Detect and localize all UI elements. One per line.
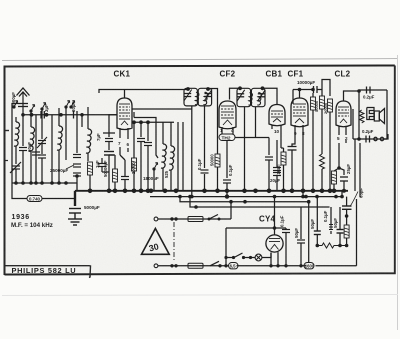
CK1 top cap wire xyxy=(99,90,188,95)
cap x227 xyxy=(223,180,231,183)
junction xyxy=(59,113,63,117)
junction z2 xyxy=(345,244,349,248)
wire xyxy=(281,148,284,191)
hook wire xyxy=(384,134,388,139)
ground xyxy=(68,213,82,225)
CY4 legs xyxy=(271,253,278,266)
junction xyxy=(298,88,302,92)
AVC line with resistor 0.740 xyxy=(12,183,75,199)
IF1 can right xyxy=(198,88,211,106)
fuse element lower xyxy=(188,265,203,267)
IF1 secondary coil xyxy=(203,92,207,104)
CK1 internal electrodes xyxy=(119,104,130,125)
wire osc coil A xyxy=(162,122,164,191)
wire osc coil B xyxy=(170,122,172,191)
resistor 0.740 oval xyxy=(27,196,42,202)
wire xyxy=(343,181,345,191)
speaker bottom line xyxy=(353,138,387,140)
junction HT2 xyxy=(243,200,247,204)
wire xyxy=(22,151,24,183)
tube CK1 xyxy=(117,94,132,130)
IF2 trimmer left xyxy=(237,90,245,101)
switch lower xyxy=(210,261,219,266)
CB1 internals xyxy=(271,111,283,122)
schematic frame xyxy=(5,66,395,276)
mains voltage triangle xyxy=(142,229,170,255)
wire cathode cap branch xyxy=(339,168,344,175)
output transformer winding xyxy=(367,108,374,120)
wire resistor xyxy=(109,155,115,191)
tall line x52 xyxy=(51,115,53,183)
IF2 secondary coil xyxy=(257,93,261,105)
junction dots cap1 xyxy=(30,113,34,117)
wire sub-bus to main bus xyxy=(76,183,78,191)
junction IF2 right xyxy=(261,86,265,90)
grid leak zigzag xyxy=(320,154,325,169)
IF2 primary coil xyxy=(248,93,252,105)
resistor box x346 xyxy=(344,225,349,238)
left frame tick 2 xyxy=(5,160,9,162)
osc coil B xyxy=(169,146,175,170)
long vertical x134 xyxy=(133,122,135,191)
tube CF2 xyxy=(219,101,236,129)
dash-dot mains divider xyxy=(173,222,175,262)
junction xyxy=(139,120,143,124)
wire osc right xyxy=(177,122,179,191)
riser to screen resistors xyxy=(322,80,330,97)
speaker return wires xyxy=(353,109,355,191)
tube CY4 xyxy=(266,235,283,252)
wave switch S0 xyxy=(13,101,18,109)
speaker top line xyxy=(359,90,387,139)
sub bus under CK1 xyxy=(132,121,174,123)
fuse upper xyxy=(188,217,203,222)
cap small left xyxy=(98,164,106,167)
wire xyxy=(268,161,270,192)
switch osc xyxy=(153,163,158,171)
wire xyxy=(204,174,206,191)
tube CL2 xyxy=(336,101,351,127)
CY4 internals xyxy=(269,239,280,258)
title block box xyxy=(5,266,91,278)
antenna series capacitor xyxy=(18,104,28,107)
top coupling cap 0.2uF xyxy=(367,87,371,94)
capacitor 60uF xyxy=(19,148,27,151)
junction dots on sub-bus xyxy=(14,174,79,185)
series cap 10000uF xyxy=(314,86,318,93)
junction xyxy=(225,189,229,193)
wire x360 down xyxy=(359,143,361,197)
CB1 anode leg down xyxy=(277,137,281,191)
cathode cap xyxy=(340,177,348,181)
wire grid branch xyxy=(108,133,110,150)
cathode resistor xyxy=(332,171,337,184)
switch S3 xyxy=(65,101,70,109)
wire xyxy=(89,175,91,191)
heater switch xyxy=(234,253,243,258)
trimmer capacitor xyxy=(10,162,21,173)
wire r3 xyxy=(329,112,331,191)
IF1 primary coil xyxy=(195,92,199,104)
CK1 legs xyxy=(120,128,128,155)
junction IF2 left xyxy=(238,86,242,90)
switch upper xyxy=(209,215,218,220)
cap 50uF a xyxy=(297,240,305,243)
IF1 trimmer right xyxy=(205,90,213,101)
CB1 top wire xyxy=(263,88,278,104)
wire xyxy=(217,141,219,191)
wire xyxy=(154,130,158,191)
junction xyxy=(357,89,361,93)
screen resistor 3 xyxy=(328,99,333,112)
junction top xyxy=(186,87,190,91)
zigzag resistor bottom xyxy=(317,243,346,248)
band coil L3 xyxy=(57,126,63,150)
cap x42 second xyxy=(38,155,46,158)
cap xyxy=(73,173,81,176)
HT distribution line A xyxy=(180,197,309,202)
CF2 top wire xyxy=(230,88,241,99)
scan faint bottom streak xyxy=(2,295,398,296)
paper tone inside frame xyxy=(4,66,395,274)
wire x82 down xyxy=(81,115,83,127)
coil L2 xyxy=(29,127,35,151)
scan texture noise xyxy=(0,0,1,1)
junction antenna xyxy=(21,113,25,117)
CF2 internal electrodes xyxy=(221,106,234,125)
junction 63 xyxy=(345,214,349,218)
wire xyxy=(334,168,339,191)
wire xyxy=(30,151,32,183)
speaker driver xyxy=(374,109,384,124)
main bus lower xyxy=(150,196,342,198)
small resistor x331 xyxy=(330,207,332,234)
IF1 can left xyxy=(184,88,197,106)
ballast oval 6,5 xyxy=(229,263,239,269)
lower bus dots xyxy=(178,195,344,199)
heater line to cap xyxy=(275,228,287,230)
IF2 primary down wire xyxy=(244,107,246,191)
wire xyxy=(15,169,17,183)
HT distribution line B xyxy=(190,197,330,207)
series capacitor C-ant2 xyxy=(41,111,44,119)
junction 10000uF wire xyxy=(311,88,315,92)
screen resistor 1 xyxy=(311,97,316,110)
dial lamp xyxy=(255,254,262,261)
wire xyxy=(41,159,43,184)
mains line lower xyxy=(158,265,357,267)
cap on x36 xyxy=(32,152,40,155)
mains terminal upper xyxy=(154,217,158,221)
tube CB1 xyxy=(269,105,285,126)
cap under CB1 xyxy=(265,157,273,160)
IF2 can left xyxy=(237,88,251,106)
junction HT3 xyxy=(307,200,311,204)
junction HT xyxy=(229,200,233,204)
CL2 internals xyxy=(338,107,349,123)
cap 0.1uF left xyxy=(201,170,209,173)
screen resistor 2 xyxy=(320,96,325,109)
input coil L1 xyxy=(14,122,20,146)
hum resistor zigzag xyxy=(359,91,364,139)
capacitor column x28 xyxy=(35,115,37,183)
pointer arc 63uF xyxy=(350,192,358,207)
wire xyxy=(140,142,142,191)
junction x134 xyxy=(132,120,136,124)
main bus upper xyxy=(75,190,348,192)
wire x148 xyxy=(147,122,149,191)
wire x77 xyxy=(76,119,78,184)
wire r2 xyxy=(321,90,323,192)
resistor under CK1 xyxy=(113,169,118,182)
cap pair b xyxy=(273,173,281,176)
wire x340 xyxy=(339,207,341,246)
coil L4 xyxy=(86,129,92,153)
wire L4 xyxy=(87,107,89,161)
osc coil A xyxy=(161,144,167,168)
mains line upper xyxy=(158,202,231,219)
junction dots lower mains xyxy=(170,264,302,267)
wire x66 xyxy=(65,107,67,160)
CL2 legs xyxy=(339,126,346,168)
wire stub x342 xyxy=(341,191,343,197)
wave switch S2 xyxy=(41,103,46,111)
wire xyxy=(226,184,228,197)
CL2 top stem xyxy=(344,91,360,101)
cap x141 xyxy=(137,139,145,142)
heater loop wire xyxy=(226,228,275,266)
IF1 secondary down wire xyxy=(204,106,206,168)
grid cap xyxy=(105,139,113,142)
bottom cap 0.2uF xyxy=(366,136,370,143)
TH2 oval xyxy=(219,134,235,141)
antenna input line xyxy=(23,114,117,116)
CF2 legs xyxy=(222,127,233,134)
pointer 25000uF xyxy=(66,165,74,169)
scan streak above frame xyxy=(2,59,398,61)
CF1 internals xyxy=(293,104,306,123)
junction line B xyxy=(194,205,198,209)
cap xyxy=(73,164,81,167)
wire x141 xyxy=(140,122,142,137)
junction cathode xyxy=(337,166,341,170)
resistor R-in xyxy=(88,162,93,175)
wire x317 to zigzag xyxy=(316,197,318,246)
capacitor 5000uF xyxy=(69,209,81,214)
trimmer arrow x42 xyxy=(37,137,47,148)
CF1 cathode cap xyxy=(288,147,297,151)
CB1 legs xyxy=(272,125,281,137)
CY4 top stem xyxy=(271,197,275,258)
wire resistor box xyxy=(346,216,348,246)
cap x317 xyxy=(314,231,321,235)
wave switch S1 xyxy=(30,105,35,113)
thick junction stub xyxy=(74,191,76,206)
resistor 20000 body xyxy=(132,158,137,171)
CF1 top stem xyxy=(299,90,301,99)
wire CB1 left to TH2 line xyxy=(268,138,270,156)
resistor 1HO xyxy=(281,152,286,165)
resistor 50000 under CF2 xyxy=(215,154,220,167)
mains terminal lower xyxy=(154,264,158,268)
enclosure right xyxy=(356,199,358,266)
left ground sub-bus xyxy=(12,182,77,184)
junction lower xyxy=(225,194,229,198)
cathode cap big xyxy=(104,152,114,156)
junction xyxy=(357,137,361,141)
cap pair x340 xyxy=(337,230,344,234)
wire S1 down with coil xyxy=(30,111,32,127)
wire CK1 left xyxy=(103,115,117,133)
wire L3 xyxy=(58,108,60,183)
wire xyxy=(102,155,109,191)
IF2 secondary down wire xyxy=(255,107,257,138)
wire xyxy=(300,207,302,266)
IF1 bottom wire to CK1 anode xyxy=(132,106,192,197)
stacked caps x77 xyxy=(73,155,81,158)
cap 63uF xyxy=(342,206,352,209)
tube CF1 xyxy=(291,98,308,127)
CF1 legs xyxy=(292,125,303,197)
bus junction dots xyxy=(88,189,346,194)
junction CY4 top xyxy=(273,226,277,230)
IF1 trimmer left xyxy=(184,90,192,101)
switch dots xyxy=(224,256,252,259)
fuse element xyxy=(188,218,203,220)
wire xyxy=(120,155,125,191)
junction top right xyxy=(206,87,210,91)
wire antenna down xyxy=(22,115,24,146)
scan page right edge xyxy=(397,55,399,330)
wire cathode cap down xyxy=(291,150,293,191)
IF2 can right xyxy=(251,88,265,106)
junction z1 xyxy=(338,244,342,248)
cathode cap x125 xyxy=(121,177,129,180)
left frame tick xyxy=(5,130,10,132)
antenna xyxy=(17,88,30,115)
wire r1 xyxy=(312,93,314,191)
IF2 trimmer right xyxy=(258,90,266,101)
junction dots upper mains xyxy=(170,217,220,220)
terminal circles xyxy=(374,137,384,140)
cap x42 xyxy=(38,141,46,144)
junction x82 xyxy=(80,113,84,117)
cap pair on pin10 leg xyxy=(273,168,281,171)
junction CY4 bus xyxy=(273,195,277,199)
fuse lower xyxy=(188,263,203,268)
wire x42 down xyxy=(41,109,43,154)
cap 0.1uF rect xyxy=(282,230,290,233)
junction xyxy=(146,120,150,124)
series capacitor C-ant3 xyxy=(74,111,78,119)
cap x148 xyxy=(144,143,152,146)
small resistor body xyxy=(329,225,333,230)
wire antenna branch left xyxy=(12,104,18,184)
fan wire from CK1 xyxy=(134,112,156,130)
wire 63uF xyxy=(346,197,348,216)
wire osc x183 xyxy=(182,122,184,191)
switch S4 xyxy=(70,101,75,109)
wire HT to 1600 xyxy=(308,202,310,263)
wire TH2 line xyxy=(227,138,269,179)
wire xyxy=(285,233,287,266)
coupling wire top xyxy=(293,90,322,105)
resistor 1600 oval xyxy=(304,263,314,269)
junction xyxy=(316,244,320,248)
wire L1 top xyxy=(15,117,17,164)
IF1 output wire xyxy=(208,89,218,142)
